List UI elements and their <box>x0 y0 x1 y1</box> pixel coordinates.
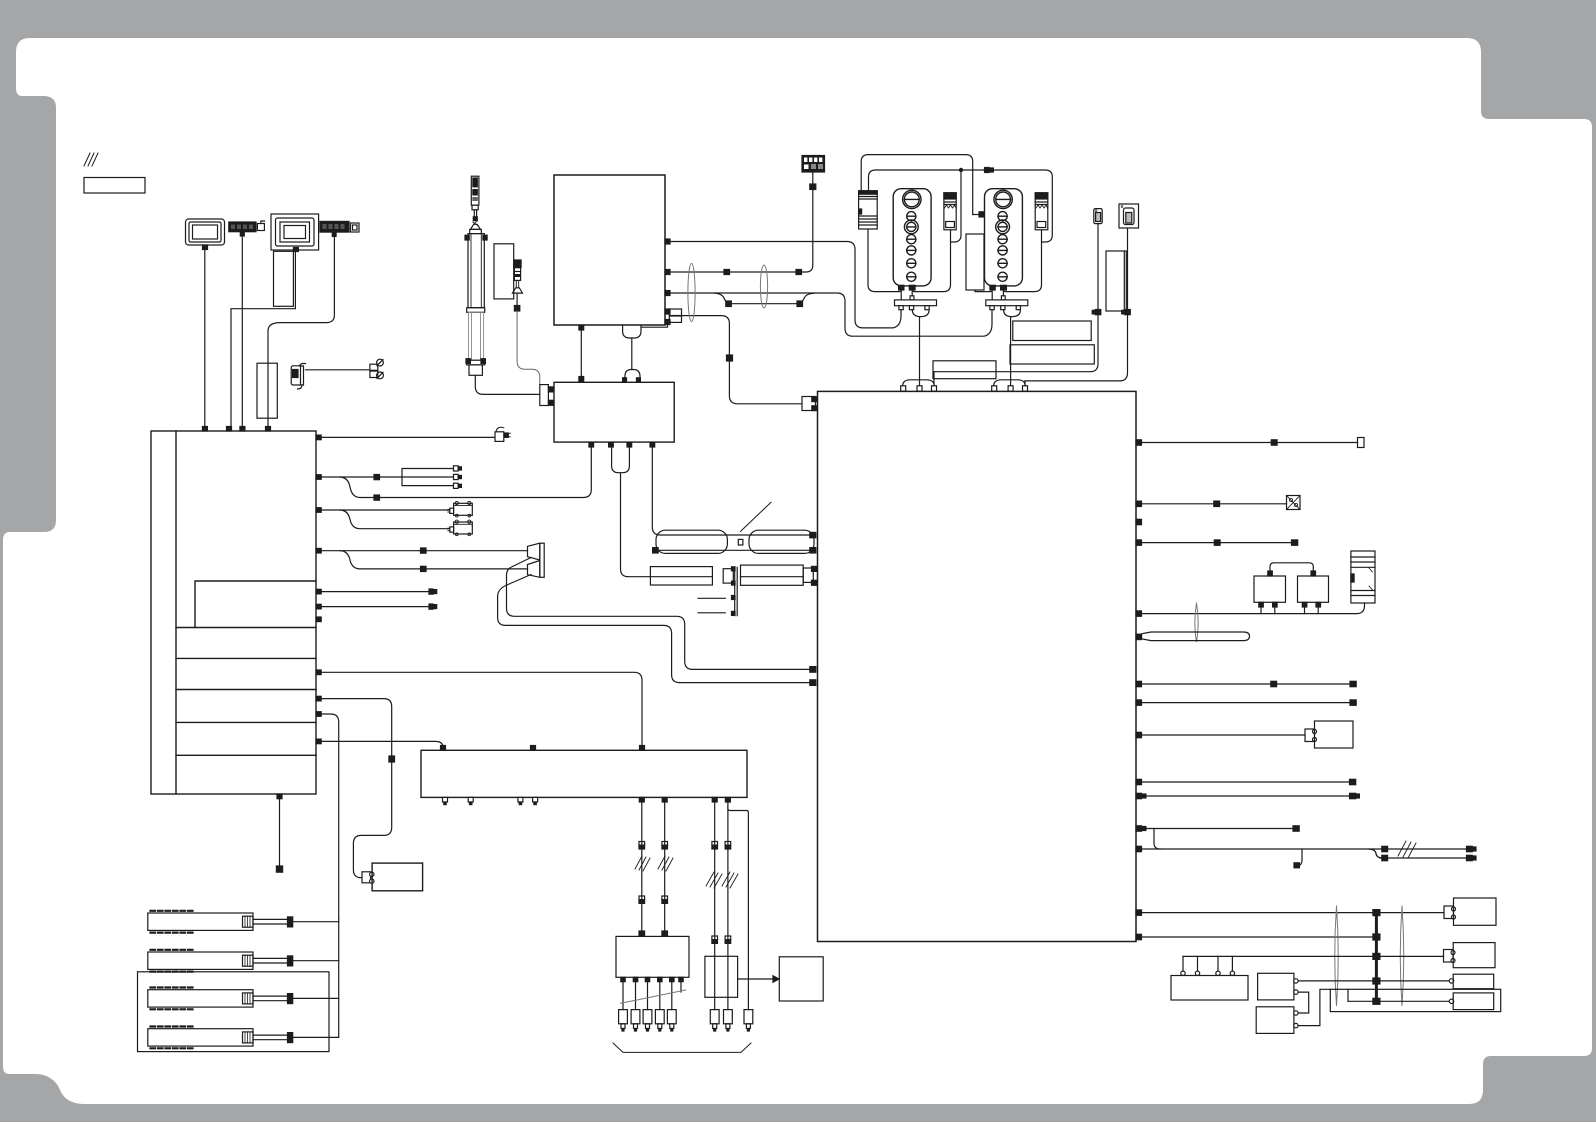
wire y442 to terminal <box>1142 442 1358 444</box>
column3 inline connector <box>712 842 718 850</box>
limit switch device 2 <box>448 520 473 536</box>
small connector end of y437 wire <box>495 427 511 441</box>
pump1 pinB drop <box>911 290 913 296</box>
wire y858 <box>1380 857 1467 859</box>
cable marker lens small <box>1195 603 1198 642</box>
wide rect B <box>1010 345 1094 364</box>
box F pin2 circle <box>1294 1023 1298 1027</box>
battery wire continued <box>353 762 391 878</box>
right edge pin y912 <box>1136 910 1142 915</box>
terminal pair y591 <box>429 589 437 594</box>
row1 connectors <box>288 917 293 927</box>
right edge pin y735 <box>1136 732 1142 737</box>
right edge pin y796 double <box>1136 793 1146 798</box>
thick bus vertical <box>1375 913 1378 1002</box>
row4 connectors <box>288 1033 293 1043</box>
cylinder end cap <box>469 365 482 375</box>
wire y702 <box>1142 702 1351 704</box>
wire central box to pump1 flange <box>670 242 901 328</box>
box B5 <box>1453 993 1494 1010</box>
bus vertical lower <box>338 918 340 1037</box>
cylinder side pin left <box>465 235 469 240</box>
right edge pin y442 <box>1136 440 1142 445</box>
heater row 3 <box>148 988 253 1010</box>
stray line b <box>698 612 725 614</box>
bus junction conn y956 <box>1373 953 1380 959</box>
speaker loop connector b <box>810 680 816 686</box>
speaker back bar <box>540 543 544 577</box>
wire y684 <box>1142 683 1351 685</box>
row4 wires <box>253 1035 288 1040</box>
wire y497 to center bottom block <box>380 447 592 498</box>
distributor bottom pins <box>621 977 683 981</box>
wire dome1 to block <box>919 317 921 386</box>
block top pins group1 <box>901 386 937 391</box>
power line A end pin into pump2 <box>973 212 985 217</box>
row3 wire to bus <box>293 997 339 999</box>
wire horn to terminals <box>306 369 370 371</box>
bracket pin a <box>548 387 553 392</box>
branch y828 down to y849 <box>1154 829 1160 850</box>
connector on y497 wire <box>374 495 380 500</box>
sensor wire to bracket <box>517 311 540 385</box>
end connector y828 <box>1293 826 1299 831</box>
connector on y568 wire <box>421 566 427 571</box>
hatch marks on pair wires <box>1398 841 1416 858</box>
connector on y550 wire <box>421 548 427 553</box>
column3 hatch <box>706 872 722 888</box>
plug shell on lower block <box>625 370 640 382</box>
connector on wire y442 <box>1271 440 1277 445</box>
end connector y782 <box>1350 779 1356 784</box>
wire E pin2 to F pin1 <box>1298 992 1309 1013</box>
wire y477 continued <box>380 476 403 478</box>
sheath comb bar <box>732 567 738 616</box>
box B1 <box>1315 721 1354 748</box>
end connector y858 <box>1467 855 1477 860</box>
right edge pin y702 <box>1136 700 1142 705</box>
wire y698 to battery <box>321 699 392 756</box>
monitor display 1 <box>186 219 225 250</box>
branch wire y550 to y568 <box>340 551 421 569</box>
box B2 bracket <box>1444 906 1456 919</box>
right edge pin y937 <box>1136 934 1142 939</box>
wire y741 to long box <box>321 741 443 747</box>
long box top pins <box>441 746 645 751</box>
bridge arc over block pins group1 <box>903 380 935 387</box>
bus junction conn y981 <box>1373 978 1380 984</box>
left block bottom pin <box>277 794 282 799</box>
terminal strip 1 <box>229 222 256 232</box>
pump1 pin A <box>899 285 904 290</box>
terminal strip 2 <box>320 221 349 232</box>
branch power line B to relay1 <box>951 170 962 242</box>
capsule housing right <box>749 530 814 553</box>
connector on keypad drop <box>810 184 816 190</box>
outline notch <box>1347 989 1349 1001</box>
wire y613 to striped box <box>1142 603 1365 614</box>
three-way fork bracket <box>402 469 453 486</box>
speaker element lower <box>528 561 540 578</box>
under brace <box>613 1043 751 1052</box>
stub wire from 322 pin <box>641 325 668 328</box>
wide rect A <box>1013 321 1091 341</box>
connector on y477 wire <box>374 475 380 480</box>
wire bundle lower branch <box>714 293 814 304</box>
plug into right block upper <box>802 397 817 411</box>
column4 hatch <box>722 872 738 888</box>
lower plug pins <box>623 378 641 382</box>
coil plug 3 <box>744 1010 753 1031</box>
end connector y796 <box>1350 793 1360 798</box>
left block right edge pins <box>316 435 321 744</box>
right edge pin y849 <box>1136 846 1142 851</box>
K1 top pin <box>1268 571 1273 576</box>
pin on lower block top <box>579 377 584 382</box>
wire switch1 to block pin <box>934 315 1098 372</box>
cable loop ellipse 2 <box>760 265 767 308</box>
relay module 2 <box>1035 193 1048 230</box>
cylinder body <box>468 234 484 308</box>
strip2 side connector icon <box>351 223 360 232</box>
wire switch2 down <box>1127 228 1129 310</box>
wire two-cell connector to right block plug <box>682 316 803 404</box>
bus junction conn y1001 <box>1373 998 1380 1004</box>
box A riser wires <box>1183 956 1232 971</box>
row4 wire to bus <box>293 1036 339 1038</box>
stub end connector <box>276 866 282 872</box>
box B1 bracket <box>1305 729 1317 742</box>
coil column 3 wire <box>714 802 716 1010</box>
wire center block pin4 to capsule pair <box>652 447 810 535</box>
distributor output wires <box>623 982 681 1010</box>
wire y503 to fan <box>1142 503 1287 505</box>
pump2 pinA drop <box>991 290 993 300</box>
capsule wire end connector b <box>810 548 816 553</box>
glow plug 3 <box>643 1010 652 1031</box>
wire y437 to small connector <box>321 436 494 438</box>
annotation slash near capsules <box>741 502 772 531</box>
connector on lower branch a <box>726 301 732 307</box>
heater row 4 <box>148 1027 253 1049</box>
speaker loop connector a <box>810 667 816 673</box>
wire y782 <box>1142 781 1350 783</box>
central box right pins <box>665 239 670 325</box>
right edge pin y828 double <box>1136 826 1146 831</box>
pointed terminal bar <box>1136 632 1250 641</box>
connector on wire y542 <box>1214 540 1220 545</box>
crossbar <box>470 229 482 233</box>
box A <box>1171 976 1248 1001</box>
capsule housing left <box>656 530 727 553</box>
central control box <box>554 175 665 325</box>
column2 inline connector <box>662 842 668 850</box>
row2 wire to bus <box>293 960 339 962</box>
legend rectangle <box>84 178 145 194</box>
long relay box <box>421 750 747 797</box>
wire plug to lower plug <box>631 338 633 370</box>
horn device <box>291 364 305 390</box>
tower stem connector <box>473 217 477 221</box>
manifold flange 2 <box>986 300 1028 306</box>
column1 hatch <box>635 856 650 871</box>
two-cell connector at box corner <box>669 309 681 322</box>
wire y714 to bus <box>321 714 339 918</box>
wall switch 2 <box>1119 204 1139 228</box>
funnel <box>470 224 480 229</box>
glow plug 4 <box>655 1010 664 1031</box>
box F <box>1256 1007 1294 1034</box>
connector on keypad wire a <box>724 270 730 275</box>
relay2 output wire to pump2 <box>1003 230 1041 292</box>
switch1 wire drop to block pin <box>933 372 935 386</box>
wire y796 <box>1146 795 1350 797</box>
pump2 pin A <box>990 285 995 290</box>
wire y550 to speaker upper <box>321 550 420 552</box>
main right block <box>818 391 1137 941</box>
stub connector <box>1294 863 1300 868</box>
wall switch 1 <box>1094 209 1102 224</box>
bus junction conn y912 <box>1373 910 1380 916</box>
box B5 pin circle <box>1449 999 1453 1003</box>
column1 inline connector <box>639 842 645 850</box>
long box bottom stub pins <box>443 797 731 804</box>
wire strip2 to block <box>268 236 334 426</box>
bracket under monitor 2 <box>274 251 294 306</box>
tower light stack <box>471 176 479 205</box>
annotation slash over plug wires <box>621 990 686 1003</box>
relay module 1 <box>944 193 956 230</box>
row3 connectors <box>288 994 293 1004</box>
wire E pin1 to box B4 <box>1298 980 1449 982</box>
connector pair on power line B <box>985 168 994 173</box>
bus junction conn y937 <box>1373 934 1380 940</box>
box B4 pin circle <box>1449 979 1453 983</box>
right edge pin y782 <box>1136 779 1142 784</box>
tower base box <box>472 205 478 210</box>
glow plug 5 <box>667 1010 676 1031</box>
outline box around B5 <box>1330 989 1500 1011</box>
wire sensor down <box>516 293 518 305</box>
fan symbol <box>1287 496 1301 510</box>
connector on lower branch b <box>797 301 803 307</box>
sheath rect left <box>650 567 712 585</box>
cable marker lens long 1 <box>1335 906 1339 1006</box>
flange1 lower pins <box>899 306 929 310</box>
speaker wire inner loop to right block <box>507 558 811 670</box>
module square box <box>779 957 823 1001</box>
annotation slashes top-left <box>84 153 98 166</box>
wire plug down to capsule line <box>621 473 651 577</box>
lower capsule wire <box>658 549 810 551</box>
switch2 wire drop to block pin <box>1024 381 1026 386</box>
fork terminal c <box>454 483 462 488</box>
plug shell under center bottom block <box>612 447 630 473</box>
connector on wire y684 <box>1271 681 1277 686</box>
right edge pin y503 <box>1136 501 1142 506</box>
column4 inline connector <box>725 842 731 850</box>
center bottom block <box>554 382 674 442</box>
row2 wires <box>253 958 288 963</box>
wire monitor1 to block <box>204 250 206 427</box>
feeder rectangle pump2 <box>966 234 984 290</box>
coil plug 1 <box>710 1010 719 1031</box>
column1 entry pin <box>639 931 645 936</box>
wire F pin2 riser <box>1298 989 1330 1025</box>
tall rect module right <box>1106 251 1126 311</box>
wire y591 to terminals <box>321 591 429 593</box>
junction dot on power line B <box>959 168 963 172</box>
connector y849 mid <box>1382 846 1388 851</box>
power line A from PSU1 <box>861 155 973 215</box>
pump module 2 <box>985 189 1023 286</box>
battery box <box>372 863 423 891</box>
column2 hatch <box>658 856 673 871</box>
power supply unit PSU1 <box>859 191 878 229</box>
wire bundle central box to pump2 flange upper <box>670 293 992 336</box>
pin under central box <box>579 325 584 330</box>
wire y510 to limit switch 1 <box>321 509 449 511</box>
wire y849 <box>1142 848 1467 850</box>
wire tower to block bracket <box>475 375 540 394</box>
box B3 <box>1453 943 1495 968</box>
block top pins group2 <box>992 386 1028 391</box>
coil column 4 wire <box>727 802 729 1010</box>
connector on plug wire <box>727 355 733 361</box>
box B2 <box>1454 898 1497 925</box>
manifold flange 1 <box>895 300 937 306</box>
sheath rect right <box>741 565 804 585</box>
wire y735 to box B1 <box>1142 734 1306 736</box>
wire strip1 to block <box>241 236 243 427</box>
row2 connectors <box>288 956 293 966</box>
cylinder mid flange <box>467 308 485 313</box>
cable loop ellipse 1 <box>688 264 695 322</box>
sheath middle box <box>723 569 733 583</box>
pump2 pin B <box>1001 285 1007 290</box>
column3 lower connector <box>712 936 718 943</box>
wire y542 <box>1142 542 1292 544</box>
wire y606 to terminals <box>321 606 429 608</box>
coil plug 2 <box>724 1010 733 1031</box>
glow column 2 wire <box>664 802 666 931</box>
column4 lower connector <box>725 936 731 943</box>
end connector y684 <box>1350 681 1356 686</box>
box F pin1 circle <box>1294 1011 1298 1015</box>
box A pin circles <box>1181 971 1235 975</box>
small sensor <box>513 260 523 293</box>
column2 entry pin <box>662 931 668 936</box>
flange1 center connector <box>910 296 914 300</box>
fork terminal a <box>454 466 462 471</box>
cylinder bottom flange <box>466 359 485 365</box>
stray line a <box>698 597 725 599</box>
power line B from PSU1 <box>869 170 1053 242</box>
connector on wire y503 <box>1214 501 1220 506</box>
connector on switch1 wire <box>1092 310 1101 315</box>
wire monitor2 to block <box>231 252 295 427</box>
cylinder side pin right <box>483 235 487 240</box>
dome under flange2 <box>1004 310 1021 317</box>
capsule bridge square <box>738 539 743 545</box>
capsule wire end connector a <box>810 532 816 537</box>
column 5 branch wire <box>728 806 749 1010</box>
column1 lower connector <box>639 896 645 903</box>
limit switch device 1 <box>448 501 473 517</box>
speaker wire outer loop to right block <box>498 575 810 683</box>
sheath end pins <box>812 566 818 585</box>
K2 top pin <box>1311 571 1316 576</box>
wire switch1 down <box>1097 224 1099 310</box>
battery connector bracket <box>362 872 374 884</box>
end connector y849 <box>1467 846 1477 851</box>
terminal eyelet 1 <box>370 359 384 370</box>
pump1 pin B <box>909 285 915 290</box>
wire y1001 to box B5 <box>1348 1000 1449 1002</box>
box E pin1 circle <box>1294 979 1298 983</box>
antenna joint <box>473 221 479 226</box>
wire central box to keypad <box>670 172 813 272</box>
cable marker lens long 2 <box>1400 906 1404 1006</box>
right edge pin y613 <box>1136 611 1142 616</box>
branch wire y510 to y528 <box>340 510 450 529</box>
strip1 side connector icon <box>257 221 264 231</box>
dome under flange1 <box>912 310 929 317</box>
center bottom block bottom pins <box>589 442 655 447</box>
right edge pin y684 <box>1136 681 1142 686</box>
branch wire y477 to y497 <box>340 477 374 498</box>
strip2 plug <box>332 232 336 236</box>
connector y858 mid <box>1382 855 1388 860</box>
speaker element upper <box>528 543 540 560</box>
glow plug 1 <box>619 1010 628 1031</box>
sheath end bracket <box>803 568 813 582</box>
row1 wire to bus <box>293 921 339 923</box>
left block top pins <box>202 427 270 432</box>
plug shell under central box <box>623 325 641 338</box>
pump2 pinB drop <box>1002 290 1004 296</box>
heater row 2 <box>148 950 253 972</box>
flange2 center connector <box>1001 296 1005 300</box>
K2 bottom pins and drops <box>1302 602 1320 613</box>
side module rect <box>494 244 514 299</box>
wire y550 continued <box>426 550 528 552</box>
PSU1 output wire to pump1 <box>868 229 901 292</box>
flange2 lower pins <box>990 306 1021 310</box>
monitor display 2 <box>271 214 319 252</box>
wire y568 continued <box>426 568 528 570</box>
wide rect C <box>933 361 996 379</box>
relay1 output wire to pump1 <box>912 230 950 292</box>
end connector y702 <box>1350 700 1356 705</box>
keypad module <box>802 156 825 173</box>
connector on switch2 wire <box>1122 310 1131 315</box>
arrow coil to module <box>738 976 779 982</box>
wire y828 <box>1146 828 1293 830</box>
wire switch2 to block pin <box>1025 315 1128 381</box>
glow plug 2 <box>631 1010 640 1031</box>
tower stem <box>474 210 476 218</box>
stub wire below left block <box>279 799 281 866</box>
small box K1 <box>1254 576 1286 602</box>
end terminal y442 <box>1358 438 1365 448</box>
wire y672 to long box <box>321 672 642 745</box>
box E pin2 circle <box>1294 990 1298 994</box>
rows outline box <box>138 972 330 1052</box>
small box K2 <box>1298 576 1329 602</box>
box E <box>1258 973 1294 1000</box>
distributor box <box>616 936 689 977</box>
